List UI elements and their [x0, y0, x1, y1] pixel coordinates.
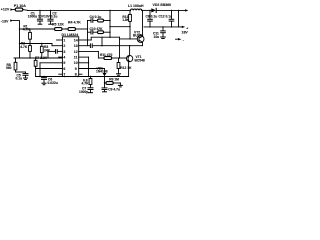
- svg-text:13: 13: [74, 44, 78, 48]
- pin 14 wire: [79, 39, 92, 41]
- resistor R5: [20, 28, 55, 30]
- svg-text:D1 LM324: D1 LM324: [62, 33, 79, 37]
- svg-text:+12V: +12V: [1, 7, 10, 11]
- svg-text:0.022u: 0.022u: [48, 81, 58, 85]
- ground: [161, 36, 166, 38]
- svg-text:2: 2: [63, 44, 65, 48]
- pin 4: [59, 56, 63, 58]
- capacitor C6: [43, 76, 45, 79]
- bottom rail: [36, 76, 129, 78]
- pin 7: [59, 73, 63, 75]
- resistor R14 (lower branch): [98, 31, 104, 34]
- svg-text:1.8K: 1.8K: [122, 18, 130, 22]
- svg-text:1000u 10V: 1000u 10V: [28, 14, 45, 18]
- svg-text:C9 4.7u: C9 4.7u: [108, 88, 120, 92]
- svg-text:VD2 SB360: VD2 SB360: [153, 3, 172, 7]
- svg-text:9: 9: [75, 67, 77, 71]
- terminal output +: [179, 26, 182, 28]
- svg-text:R5 12K: R5 12K: [52, 23, 64, 27]
- svg-text:12: 12: [74, 50, 78, 54]
- capacitor C8: [149, 10, 151, 19]
- capacitor C12: [171, 10, 173, 19]
- VT2 emitter wire: [142, 42, 144, 46]
- svg-text:BU258: BU258: [133, 33, 143, 37]
- diode VD2: [151, 8, 156, 12]
- pin 5: [40, 62, 62, 64]
- svg-text:4.7K: 4.7K: [23, 27, 31, 31]
- pin 12 wire: [79, 50, 99, 52]
- svg-text:4.7K: 4.7K: [20, 45, 28, 49]
- svg-text:BC548: BC548: [135, 58, 145, 62]
- transistor VT1: [126, 55, 132, 61]
- wire output ground rail: [144, 26, 179, 28]
- resistor R7: [35, 58, 37, 60]
- node junction: [101, 45, 102, 46]
- resistor R9: [105, 82, 107, 84]
- svg-text:-: -: [183, 38, 184, 42]
- svg-text:4: 4: [63, 56, 65, 60]
- svg-text:10: 10: [74, 61, 78, 65]
- svg-text:R11 470: R11 470: [100, 53, 112, 57]
- svg-text:0.1u: 0.1u: [16, 77, 23, 81]
- wire rail pin4: [14, 57, 62, 59]
- diode VD1: [104, 69, 106, 73]
- resistor R2: [29, 44, 31, 46]
- node A vertical: [87, 21, 89, 46]
- capacitor C4 (upper branch): [88, 20, 91, 22]
- capacitor C5: [16, 71, 26, 73]
- pin 2: [52, 45, 62, 47]
- inductor L1: [131, 9, 142, 10]
- pin 1: [57, 39, 63, 41]
- VT1 emitter wire: [128, 62, 130, 77]
- resistor R1: [29, 29, 31, 32]
- svg-text:1N4148: 1N4148: [96, 70, 108, 74]
- svg-text:10u: 10u: [154, 35, 160, 39]
- svg-text:1000p: 1000p: [79, 90, 88, 94]
- node B vertical: [109, 10, 111, 37]
- svg-text:14: 14: [74, 38, 78, 42]
- svg-text:3: 3: [63, 50, 65, 54]
- resistor R3: [41, 44, 43, 47]
- pin numbers left: [63, 38, 65, 76]
- svg-text:6: 6: [63, 67, 65, 71]
- resistor R8: [15, 58, 17, 62]
- transistor VT2: [137, 36, 144, 43]
- pin 6: [36, 68, 63, 70]
- capacitor C2: [50, 10, 52, 19]
- IC ground stubs: [64, 76, 65, 77]
- svg-text:10V 0.1u: 10V 0.1u: [44, 14, 57, 18]
- svg-text:L1 100uH: L1 100uH: [128, 4, 144, 8]
- node C2 junction: [50, 10, 51, 11]
- resistor R12: [118, 58, 120, 63]
- wire: [178, 10, 180, 27]
- pin 3: [58, 50, 62, 52]
- wire base VT2: [120, 38, 138, 40]
- node C1 junction: [39, 10, 40, 11]
- svg-text:8: 8: [75, 73, 77, 77]
- capacitor C11: [162, 27, 164, 31]
- capacitor C1: [39, 10, 41, 19]
- resistor R4: [68, 28, 76, 31]
- terminal -13V input arrow: [10, 19, 13, 21]
- resistor R7 (upper branch): [98, 19, 104, 22]
- wire drive node: [119, 37, 121, 58]
- terminal output - arrow: [176, 38, 179, 40]
- svg-text:C4 0.1u: C4 0.1u: [90, 15, 102, 19]
- svg-text:C12 0.1u: C12 0.1u: [159, 14, 173, 18]
- pin 13 wire + capacitor: [79, 45, 90, 47]
- svg-text:-13V: -13V: [1, 19, 9, 23]
- pin 10 wire: [79, 62, 89, 64]
- pin numbers right: [74, 38, 78, 76]
- svg-text:24K: 24K: [44, 48, 51, 52]
- terminal +12V input arrow: [10, 8, 13, 10]
- wire node B to R13: [110, 26, 130, 28]
- svg-text:11: 11: [74, 56, 78, 60]
- svg-text:7: 7: [63, 73, 65, 77]
- pin 9 wire: [79, 68, 105, 70]
- resistor R11: [98, 57, 104, 59]
- resistor R13: [129, 10, 131, 14]
- svg-text:1: 1: [63, 38, 65, 42]
- node junction: [119, 57, 120, 58]
- svg-text:C8 0.1u: C8 0.1u: [146, 14, 158, 18]
- terminal output + arrow: [185, 9, 188, 11]
- pin 11 wire: [79, 56, 89, 58]
- resistor R bottom 4.7K: [90, 77, 92, 79]
- svg-text:R4 4.7K: R4 4.7K: [68, 21, 81, 25]
- svg-text:560: 560: [6, 66, 12, 70]
- svg-text:R12 1K: R12 1K: [120, 66, 132, 70]
- wire: [13, 9, 15, 11]
- capacitor C10 (lower branch): [88, 31, 91, 33]
- wire: [13, 21, 20, 58]
- pin 8 stub: [79, 73, 82, 75]
- svg-text:P1 10A: P1 10A: [14, 4, 26, 8]
- wire top rail: [28, 9, 131, 11]
- svg-text:18V: 18V: [182, 31, 189, 35]
- node junction: [88, 62, 89, 63]
- svg-text:R9 1M: R9 1M: [109, 78, 119, 82]
- capacitor C7: [90, 85, 92, 88]
- wire to VT1 collector: [129, 46, 131, 56]
- capacitor C9: [102, 87, 107, 89]
- fuse P1: [15, 8, 23, 11]
- wire mid feedback: [20, 43, 53, 45]
- svg-text:5: 5: [63, 61, 65, 65]
- svg-text:R7 2.2K: R7 2.2K: [35, 56, 48, 60]
- svg-text:C10 47K: C10 47K: [90, 27, 104, 31]
- svg-text:4.7K: 4.7K: [82, 82, 90, 86]
- wire pin14 to pin13 net: [101, 37, 103, 46]
- op-amp D1 LM324 body: [62, 37, 78, 77]
- node: [19, 43, 20, 44]
